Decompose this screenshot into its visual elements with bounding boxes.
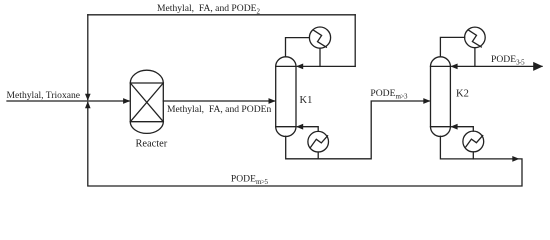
column K1 bottom dome [276, 127, 296, 137]
wire top recycle right vertical [354, 15, 356, 67]
reactor bottom head [130, 122, 163, 134]
wire K2 reboiler return [452, 127, 474, 131]
column K1 shell [276, 66, 296, 126]
arrow K2 reboiler return into column [450, 124, 457, 130]
arrow K2 product out [533, 62, 543, 71]
wire top recycle horizontal [88, 14, 355, 16]
column K2 top dome [431, 57, 451, 67]
condenser E1 circle [309, 27, 330, 48]
wire K2 reboiler drop [472, 152, 474, 159]
wire K2 condenser drop [474, 48, 476, 67]
svg-text:PODEm>5: PODEm>5 [231, 174, 269, 187]
svg-text:PODE3-5: PODE3-5 [491, 54, 525, 67]
wire K2 reflux / product line [452, 65, 542, 67]
svg-text:Methylal, Trioxane: Methylal, Trioxane [7, 90, 81, 101]
svg-text:K2: K2 [456, 88, 469, 99]
reactor X packing [130, 83, 163, 122]
column K1 top dome [276, 57, 296, 67]
condenser E1 zigzag [313, 30, 326, 47]
arrow K1 reflux into column [296, 64, 303, 70]
arrow bottom recycle up into junction [85, 101, 91, 108]
wire K1 condenser riser [286, 38, 310, 57]
wire K1 reflux line [298, 65, 356, 67]
reboiler E2 zigzag [311, 136, 328, 147]
arrow K2 bottoms direction [512, 156, 519, 162]
wire feed line Methylal,Trioxane [7, 100, 129, 102]
arrow feed into reactor [123, 98, 130, 104]
wire reactor outlet to K1 [163, 100, 274, 102]
column K2 shell [431, 66, 451, 126]
svg-text:Methylal, FA, and PODEn: Methylal, FA, and PODEn [167, 104, 271, 115]
svg-text:K1: K1 [300, 95, 313, 106]
wire K1 bottoms to K2 [286, 101, 430, 159]
wire top recycle left vertical [87, 15, 89, 100]
wire K2 bottoms recycle [88, 103, 522, 187]
arrow K1 bottoms into K2 [423, 98, 430, 104]
arrow K2 reflux into column [450, 64, 457, 70]
svg-text:Methylal, FA, and PODE2: Methylal, FA, and PODE2 [157, 3, 260, 15]
condenser E3 zigzag [468, 30, 481, 47]
arrow reactor outlet into K1 [269, 98, 276, 104]
reboiler E2 circle [308, 131, 329, 152]
reboiler E4 circle [463, 131, 484, 152]
reactor top head [130, 70, 163, 83]
svg-text:Reacter: Reacter [136, 139, 168, 150]
wire K1 reboiler drop [317, 152, 319, 159]
wire K1 reboiler return [298, 127, 319, 132]
svg-text:PODEm>3: PODEm>3 [370, 88, 408, 101]
arrow K1 reboiler return into column [296, 124, 303, 130]
reboiler E4 zigzag [466, 136, 483, 147]
column K2 bottom dome [431, 127, 451, 137]
condenser E3 circle [465, 27, 486, 48]
wire K2 condenser riser [440, 37, 464, 56]
wire K1 condenser drop [319, 48, 321, 66]
reactor vessel body [130, 83, 163, 122]
arrow top recycle down into junction [85, 94, 91, 101]
